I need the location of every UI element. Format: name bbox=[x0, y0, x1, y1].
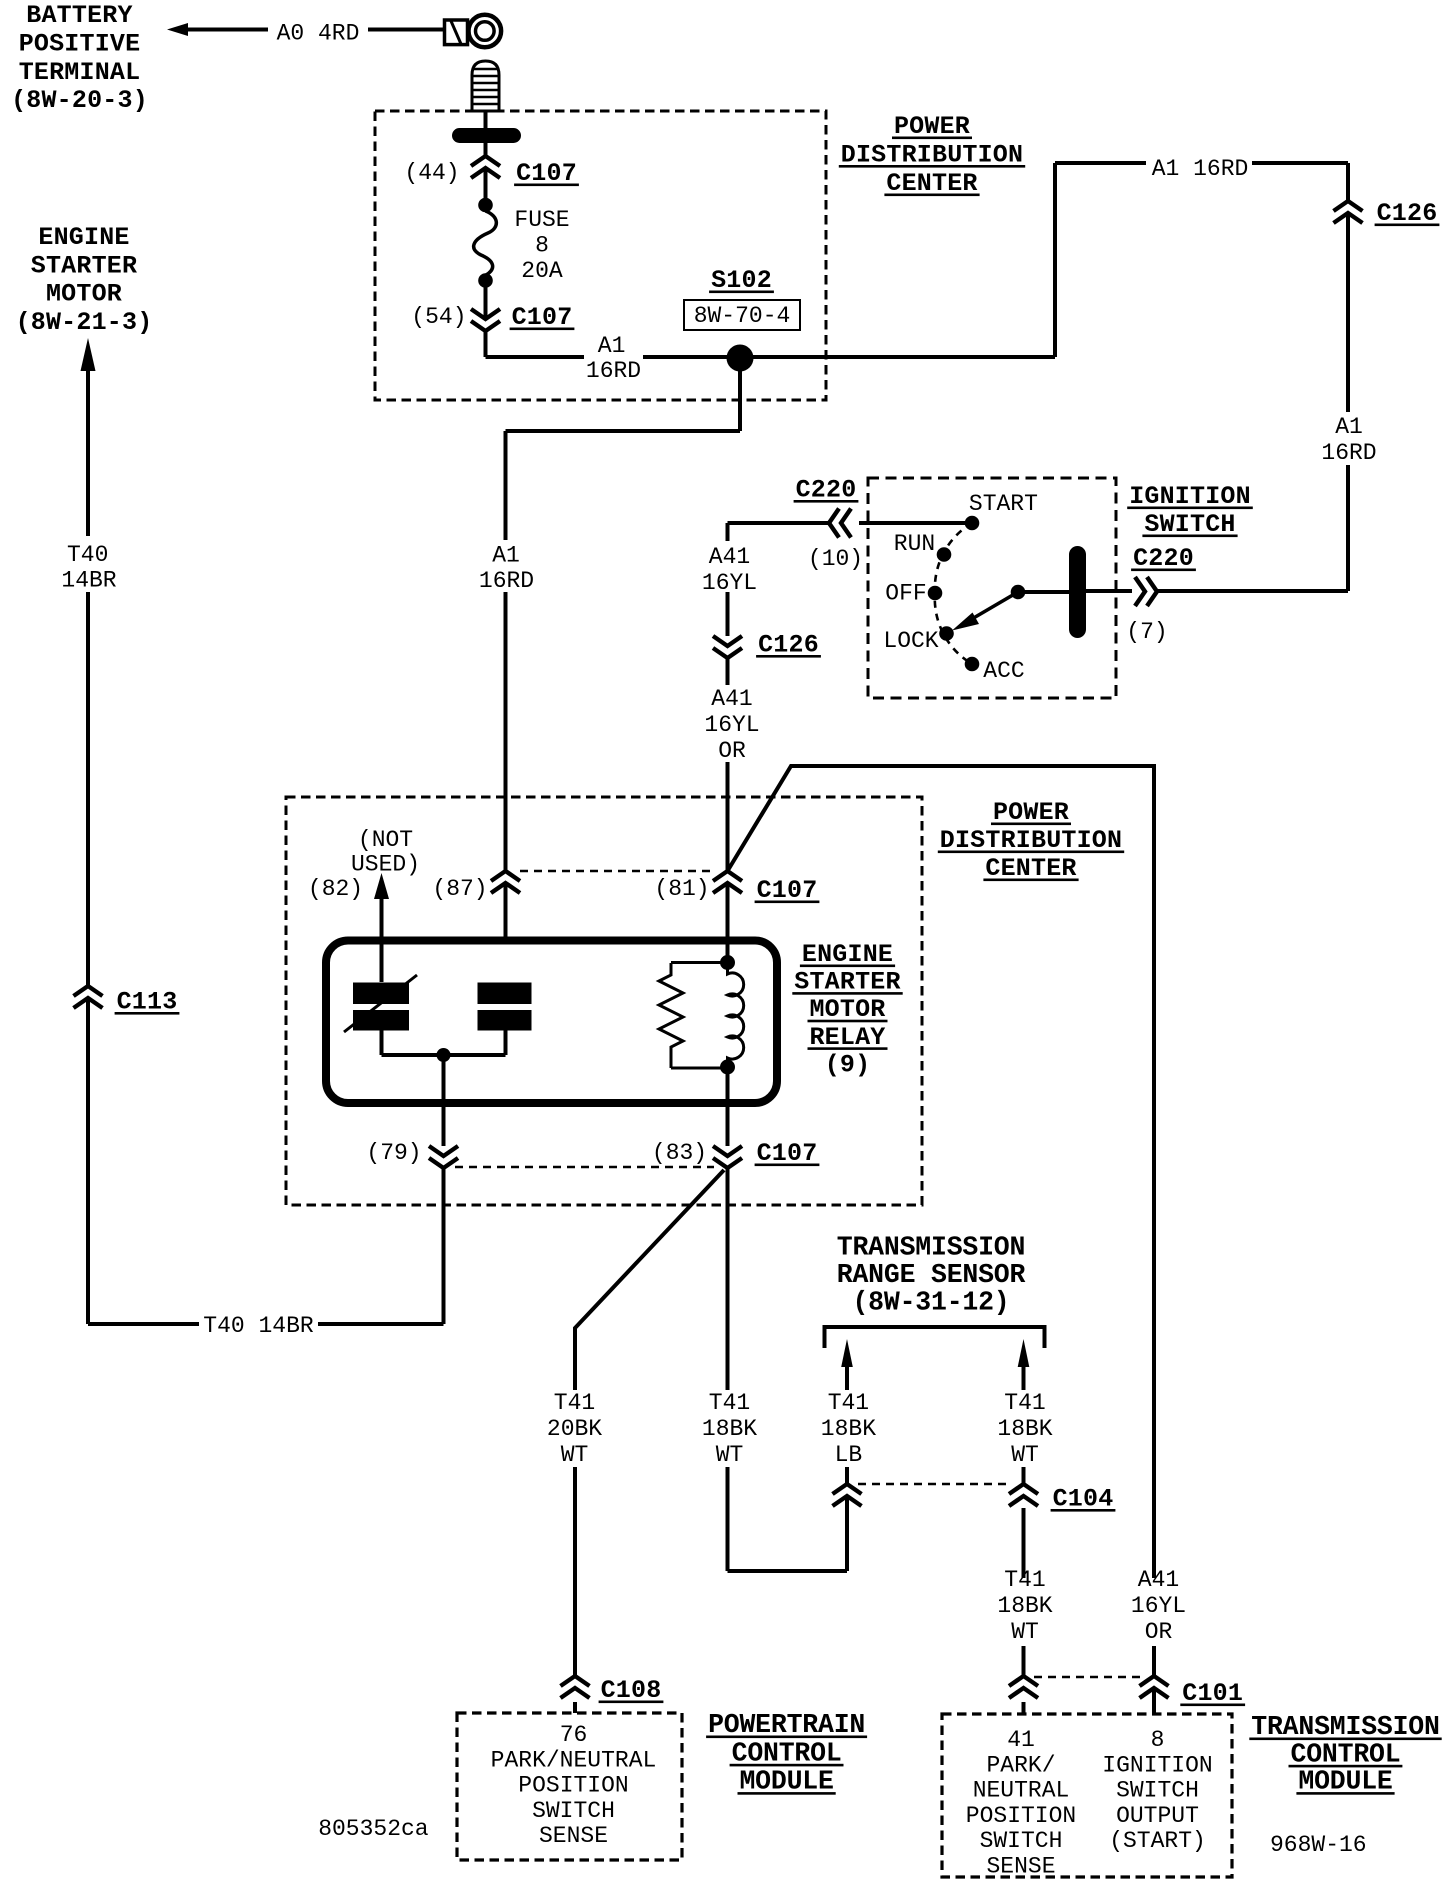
svg-text:PARK/NEUTRAL: PARK/NEUTRAL bbox=[491, 1747, 657, 1773]
svg-text:TRANSMISSION: TRANSMISSION bbox=[837, 1233, 1025, 1263]
svg-text:SWITCH: SWITCH bbox=[980, 1828, 1063, 1854]
svg-text:LB: LB bbox=[835, 1442, 863, 1468]
svg-text:805352ca: 805352ca bbox=[318, 1816, 429, 1842]
svg-text:OFF: OFF bbox=[885, 581, 926, 607]
svg-text:76: 76 bbox=[560, 1722, 588, 1748]
svg-text:A1: A1 bbox=[598, 333, 626, 359]
svg-text:OR: OR bbox=[718, 738, 746, 764]
svg-text:NEUTRAL: NEUTRAL bbox=[973, 1778, 1070, 1804]
svg-text:T40 14BR: T40 14BR bbox=[203, 1313, 314, 1339]
svg-text:16RD: 16RD bbox=[479, 568, 534, 594]
svg-text:WT: WT bbox=[716, 1442, 744, 1468]
svg-text:OR: OR bbox=[1145, 1619, 1173, 1645]
svg-text:16YL: 16YL bbox=[1131, 1593, 1186, 1619]
svg-text:(81): (81) bbox=[654, 876, 709, 902]
svg-text:FUSE: FUSE bbox=[514, 207, 569, 233]
svg-text:A41: A41 bbox=[1138, 1567, 1179, 1593]
svg-text:TERMINAL: TERMINAL bbox=[19, 58, 141, 87]
svg-text:20BK: 20BK bbox=[547, 1416, 602, 1442]
svg-text:A41: A41 bbox=[709, 544, 750, 570]
svg-text:WT: WT bbox=[1011, 1619, 1039, 1645]
svg-text:A1: A1 bbox=[1335, 414, 1363, 440]
svg-text:16RD: 16RD bbox=[586, 358, 641, 384]
svg-text:41: 41 bbox=[1007, 1727, 1035, 1753]
svg-text:IGNITION: IGNITION bbox=[1102, 1752, 1212, 1778]
svg-text:(82): (82) bbox=[308, 876, 363, 902]
svg-text:RANGE SENSOR: RANGE SENSOR bbox=[837, 1260, 1026, 1290]
svg-text:(8W-21-3): (8W-21-3) bbox=[16, 308, 153, 337]
svg-text:SENSE: SENSE bbox=[986, 1854, 1055, 1880]
svg-text:968W-16: 968W-16 bbox=[1270, 1832, 1367, 1858]
svg-text:18BK: 18BK bbox=[997, 1416, 1052, 1442]
svg-text:(7): (7) bbox=[1126, 619, 1167, 645]
svg-text:(8W-20-3): (8W-20-3) bbox=[11, 86, 148, 115]
svg-text:T41: T41 bbox=[709, 1390, 750, 1416]
svg-text:(START): (START) bbox=[1109, 1828, 1206, 1854]
svg-text:SENSE: SENSE bbox=[539, 1823, 608, 1849]
svg-text:(8W-31-12): (8W-31-12) bbox=[852, 1288, 1009, 1318]
svg-text:8: 8 bbox=[535, 233, 549, 259]
svg-text:START: START bbox=[969, 491, 1038, 517]
svg-text:RUN: RUN bbox=[894, 531, 935, 557]
svg-text:POSITION: POSITION bbox=[966, 1803, 1076, 1829]
svg-text:POSITION: POSITION bbox=[518, 1773, 628, 1799]
svg-text:PARK/: PARK/ bbox=[986, 1752, 1055, 1778]
svg-text:T41: T41 bbox=[828, 1390, 869, 1416]
svg-text:POSITIVE: POSITIVE bbox=[19, 29, 141, 58]
svg-text:(79): (79) bbox=[366, 1140, 421, 1166]
svg-text:SWITCH: SWITCH bbox=[532, 1798, 615, 1824]
svg-text:BATTERY: BATTERY bbox=[26, 1, 132, 30]
svg-text:14BR: 14BR bbox=[61, 568, 116, 594]
svg-text:WT: WT bbox=[1011, 1442, 1039, 1468]
svg-text:T41: T41 bbox=[1004, 1390, 1045, 1416]
svg-text:(9): (9) bbox=[825, 1050, 871, 1079]
svg-text:(87): (87) bbox=[432, 876, 487, 902]
svg-text:20A: 20A bbox=[521, 258, 563, 284]
svg-text:A1 16RD: A1 16RD bbox=[1152, 156, 1249, 182]
svg-text:(54): (54) bbox=[411, 304, 466, 330]
svg-text:USED): USED) bbox=[351, 852, 420, 878]
svg-text:T41: T41 bbox=[554, 1390, 595, 1416]
svg-text:A41: A41 bbox=[711, 686, 752, 712]
svg-text:ENGINE: ENGINE bbox=[38, 223, 129, 252]
svg-text:16YL: 16YL bbox=[702, 570, 757, 596]
svg-text:T41: T41 bbox=[1004, 1567, 1045, 1593]
svg-text:STARTER: STARTER bbox=[31, 251, 137, 280]
svg-text:WT: WT bbox=[561, 1442, 589, 1468]
svg-text:A0 4RD: A0 4RD bbox=[277, 21, 360, 47]
svg-text:18BK: 18BK bbox=[821, 1416, 876, 1442]
svg-text:ACC: ACC bbox=[983, 658, 1024, 684]
svg-text:18BK: 18BK bbox=[997, 1593, 1052, 1619]
svg-text:OUTPUT: OUTPUT bbox=[1116, 1803, 1199, 1829]
svg-text:(44): (44) bbox=[404, 160, 459, 186]
svg-text:16YL: 16YL bbox=[704, 712, 759, 738]
svg-text:LOCK: LOCK bbox=[883, 628, 938, 654]
svg-text:T40: T40 bbox=[67, 542, 108, 568]
svg-text:(83): (83) bbox=[652, 1140, 707, 1166]
svg-text:MOTOR: MOTOR bbox=[46, 280, 122, 309]
svg-text:(10): (10) bbox=[808, 546, 863, 572]
svg-text:8W-70-4: 8W-70-4 bbox=[694, 303, 791, 329]
svg-text:A1: A1 bbox=[492, 543, 520, 569]
svg-text:(NOT: (NOT bbox=[358, 827, 413, 853]
svg-text:18BK: 18BK bbox=[702, 1416, 757, 1442]
svg-text:16RD: 16RD bbox=[1321, 440, 1376, 466]
svg-text:8: 8 bbox=[1151, 1727, 1165, 1753]
svg-text:SWITCH: SWITCH bbox=[1116, 1778, 1199, 1804]
